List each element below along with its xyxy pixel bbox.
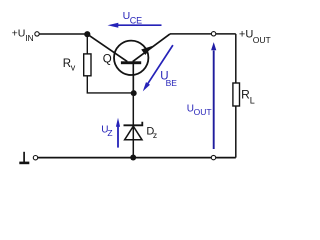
svg-text:BE: BE — [166, 78, 178, 88]
terminal ground — [33, 156, 37, 160]
svg-text:L: L — [250, 96, 255, 106]
svg-text:+U: +U — [12, 28, 26, 40]
svg-text:Z: Z — [107, 128, 112, 138]
node base junction — [131, 90, 137, 96]
svg-text:OUT: OUT — [194, 107, 212, 117]
ground — [19, 152, 29, 164]
svg-text:v: v — [71, 63, 76, 73]
svg-text:+U: +U — [239, 29, 253, 41]
transistor Q1 — [87, 34, 170, 93]
wire zener lead — [132, 93, 134, 158]
wire base lead — [132, 64, 134, 94]
wire right vertical lower — [235, 106, 237, 158]
resistor Rv — [84, 54, 91, 76]
wire Rv bottom to base node — [87, 76, 133, 93]
svg-text:IN: IN — [25, 33, 34, 43]
svg-text:Q: Q — [103, 53, 112, 65]
wire top-right rail — [170, 33, 236, 35]
wire right vertical upper — [235, 34, 237, 84]
zener diode Dz — [124, 122, 143, 140]
wire top-left rail — [38, 33, 87, 35]
svg-text:z: z — [153, 130, 157, 140]
wire Rv top — [86, 34, 88, 55]
terminal +UIN — [35, 32, 39, 36]
arrow UZ — [116, 118, 120, 148]
svg-text:CE: CE — [130, 16, 143, 26]
arrow UCE — [108, 23, 162, 28]
wire bottom rail — [38, 157, 236, 159]
node zener-ground junction — [130, 155, 136, 161]
terminal out-bottom — [211, 155, 215, 159]
svg-text:OUT: OUT — [253, 35, 271, 45]
arrow UBE — [143, 45, 173, 91]
resistor RL — [233, 83, 240, 106]
svg-text:R: R — [241, 88, 250, 102]
node junction top — [84, 31, 90, 37]
terminal +UOUT — [211, 32, 215, 36]
arrow UOUT — [211, 42, 216, 149]
